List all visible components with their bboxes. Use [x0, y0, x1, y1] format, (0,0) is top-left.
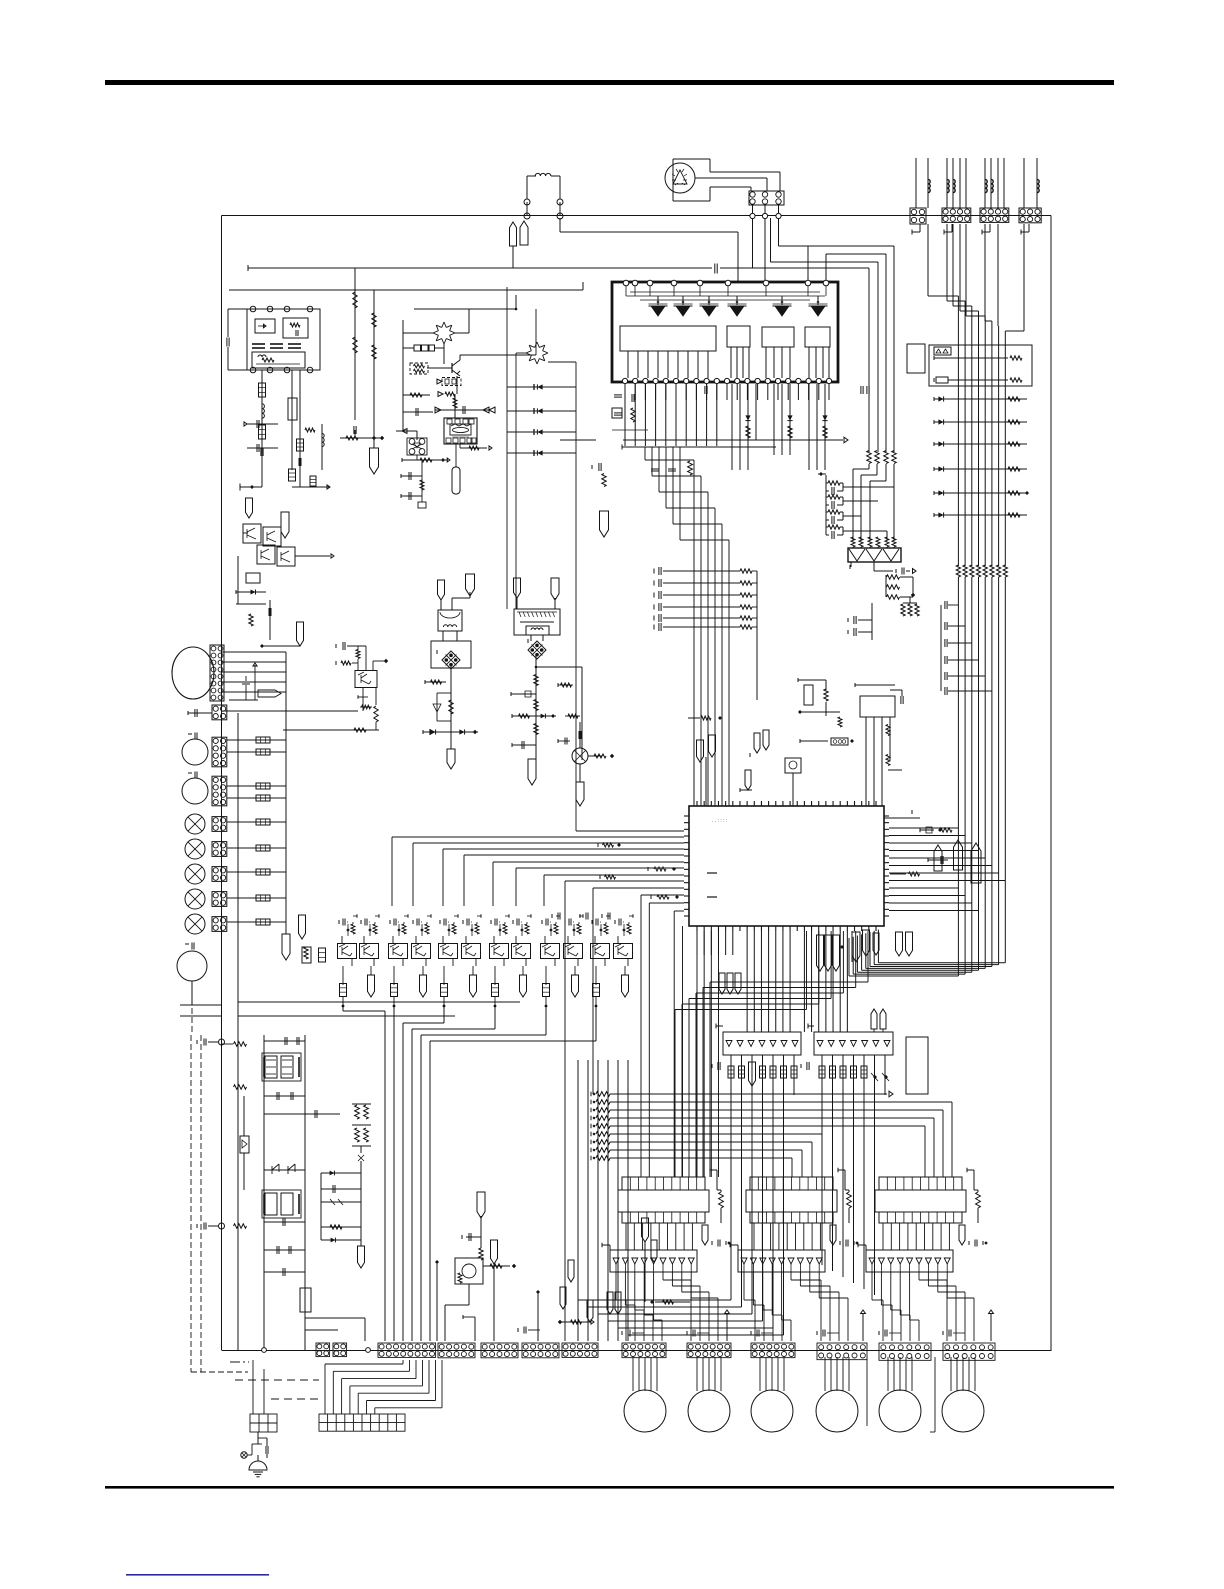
svg-text:. . : : : :: . . : : : : — [712, 818, 727, 824]
